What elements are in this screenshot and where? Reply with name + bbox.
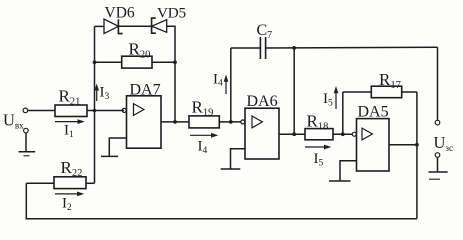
svg-text:R22: R22 [61, 158, 83, 179]
wire DA5 output feedback vertical [416, 92, 418, 219]
resistor R22 [54, 177, 86, 189]
current arrow I3 [94, 84, 99, 102]
resistor R17 [371, 86, 401, 98]
current arrow I5 horizontal [305, 145, 331, 150]
junction node A-R20 [93, 60, 97, 64]
svg-text:R21: R21 [59, 87, 81, 108]
wire VD6 to VD5 [118, 25, 151, 27]
svg-text:C7: C7 [257, 22, 273, 41]
resistor R20 [122, 56, 152, 68]
current arrow I4 vertical [224, 75, 229, 95]
node output terminal top [435, 120, 440, 125]
node Uvx input terminal bottom [24, 128, 29, 133]
wire top right down to output terminal [437, 47, 439, 120]
svg-text:R18: R18 [307, 112, 329, 133]
svg-text:I4: I4 [198, 139, 208, 157]
svg-text:DA5: DA5 [358, 104, 389, 121]
wire R21 to node A [87, 110, 124, 112]
resistor R18 [305, 129, 333, 140]
svg-text:DA7: DA7 [130, 81, 161, 98]
junction R20 right [173, 60, 177, 64]
svg-text:I4: I4 [213, 72, 223, 89]
wire DA7 second input to ground [109, 138, 126, 156]
ground DA6 [221, 168, 241, 170]
current arrow I5 vertical [334, 86, 339, 109]
junction R19-C7 branch [229, 120, 233, 124]
diode VD5 [152, 18, 167, 33]
wire DA5 output [389, 144, 417, 146]
ground DA5 [329, 180, 351, 182]
wire R22 left [26, 182, 54, 184]
resistor R19 [189, 116, 219, 128]
node output terminal bottom [435, 153, 440, 158]
junction DA6 output [292, 132, 296, 136]
node Uvx input terminal top [23, 108, 28, 113]
current arrow I1 [55, 119, 85, 124]
svg-text:VD5: VD5 [157, 5, 186, 22]
wire vertical feedback right down to DA7 output [174, 62, 176, 122]
wire DA5 second input to ground [340, 161, 357, 181]
svg-text:VD6: VD6 [105, 5, 135, 22]
wire top row to VD6 [95, 25, 105, 27]
wire R17 left [343, 91, 372, 93]
svg-text:R17: R17 [379, 70, 401, 91]
op-amp U DA5 [352, 119, 389, 171]
svg-text:R19: R19 [192, 98, 214, 119]
wire DA6 output to R18 [279, 133, 305, 135]
svg-text:I5: I5 [323, 91, 333, 109]
wire VD5 to right corner [167, 26, 175, 62]
ground output [429, 157, 448, 179]
wire R20 right [152, 61, 175, 63]
current arrow I4 horizontal [190, 133, 218, 138]
wire C7 row left [231, 47, 260, 49]
svg-text:I3: I3 [100, 85, 110, 103]
wire R17 branch vertical [342, 92, 344, 134]
svg-text:DA6: DA6 [247, 93, 278, 110]
op-amp U DA6 [241, 108, 279, 159]
wire C7 row right [266, 46, 438, 49]
svg-text:I5: I5 [314, 151, 324, 169]
junction DA7 output feedback [173, 120, 177, 124]
junction DA5 output [415, 143, 419, 147]
wire R17 right [402, 91, 417, 93]
wire DA7 output to R19 [161, 121, 189, 123]
wire C7 junction down to DA6 output node [293, 48, 295, 134]
wire DA6 second input to ground [231, 149, 246, 169]
wire R22 right to node A vertical [86, 182, 95, 184]
junction C7 to DA6 output [292, 46, 296, 50]
svg-text:R20: R20 [129, 40, 151, 61]
junction R17 branch [341, 132, 345, 136]
ground input [19, 133, 36, 156]
svg-text:Uзс: Uзс [434, 133, 453, 153]
wire bottom feedback [26, 183, 417, 219]
op-amp U DA7 [122, 96, 161, 148]
svg-text:I2: I2 [62, 196, 72, 214]
wire vertical feedback left (node A up to diodes, down to R22) [94, 26, 96, 183]
wire input terminal to R21 [28, 110, 55, 112]
wire vertical up to C7 row [230, 48, 232, 122]
wire R18 to DA5 [333, 133, 353, 135]
wire R19 to DA6 [219, 121, 241, 123]
resistor R21 [55, 105, 87, 117]
diode VD6 [104, 19, 123, 33]
ground DA7 [101, 155, 118, 157]
svg-text:Uвх: Uвх [3, 111, 24, 131]
current arrow I2 [55, 192, 84, 197]
svg-text:I1: I1 [64, 123, 74, 141]
wire R20 left [95, 61, 122, 63]
node A junction [93, 109, 97, 113]
capacitor C7 [260, 37, 265, 59]
